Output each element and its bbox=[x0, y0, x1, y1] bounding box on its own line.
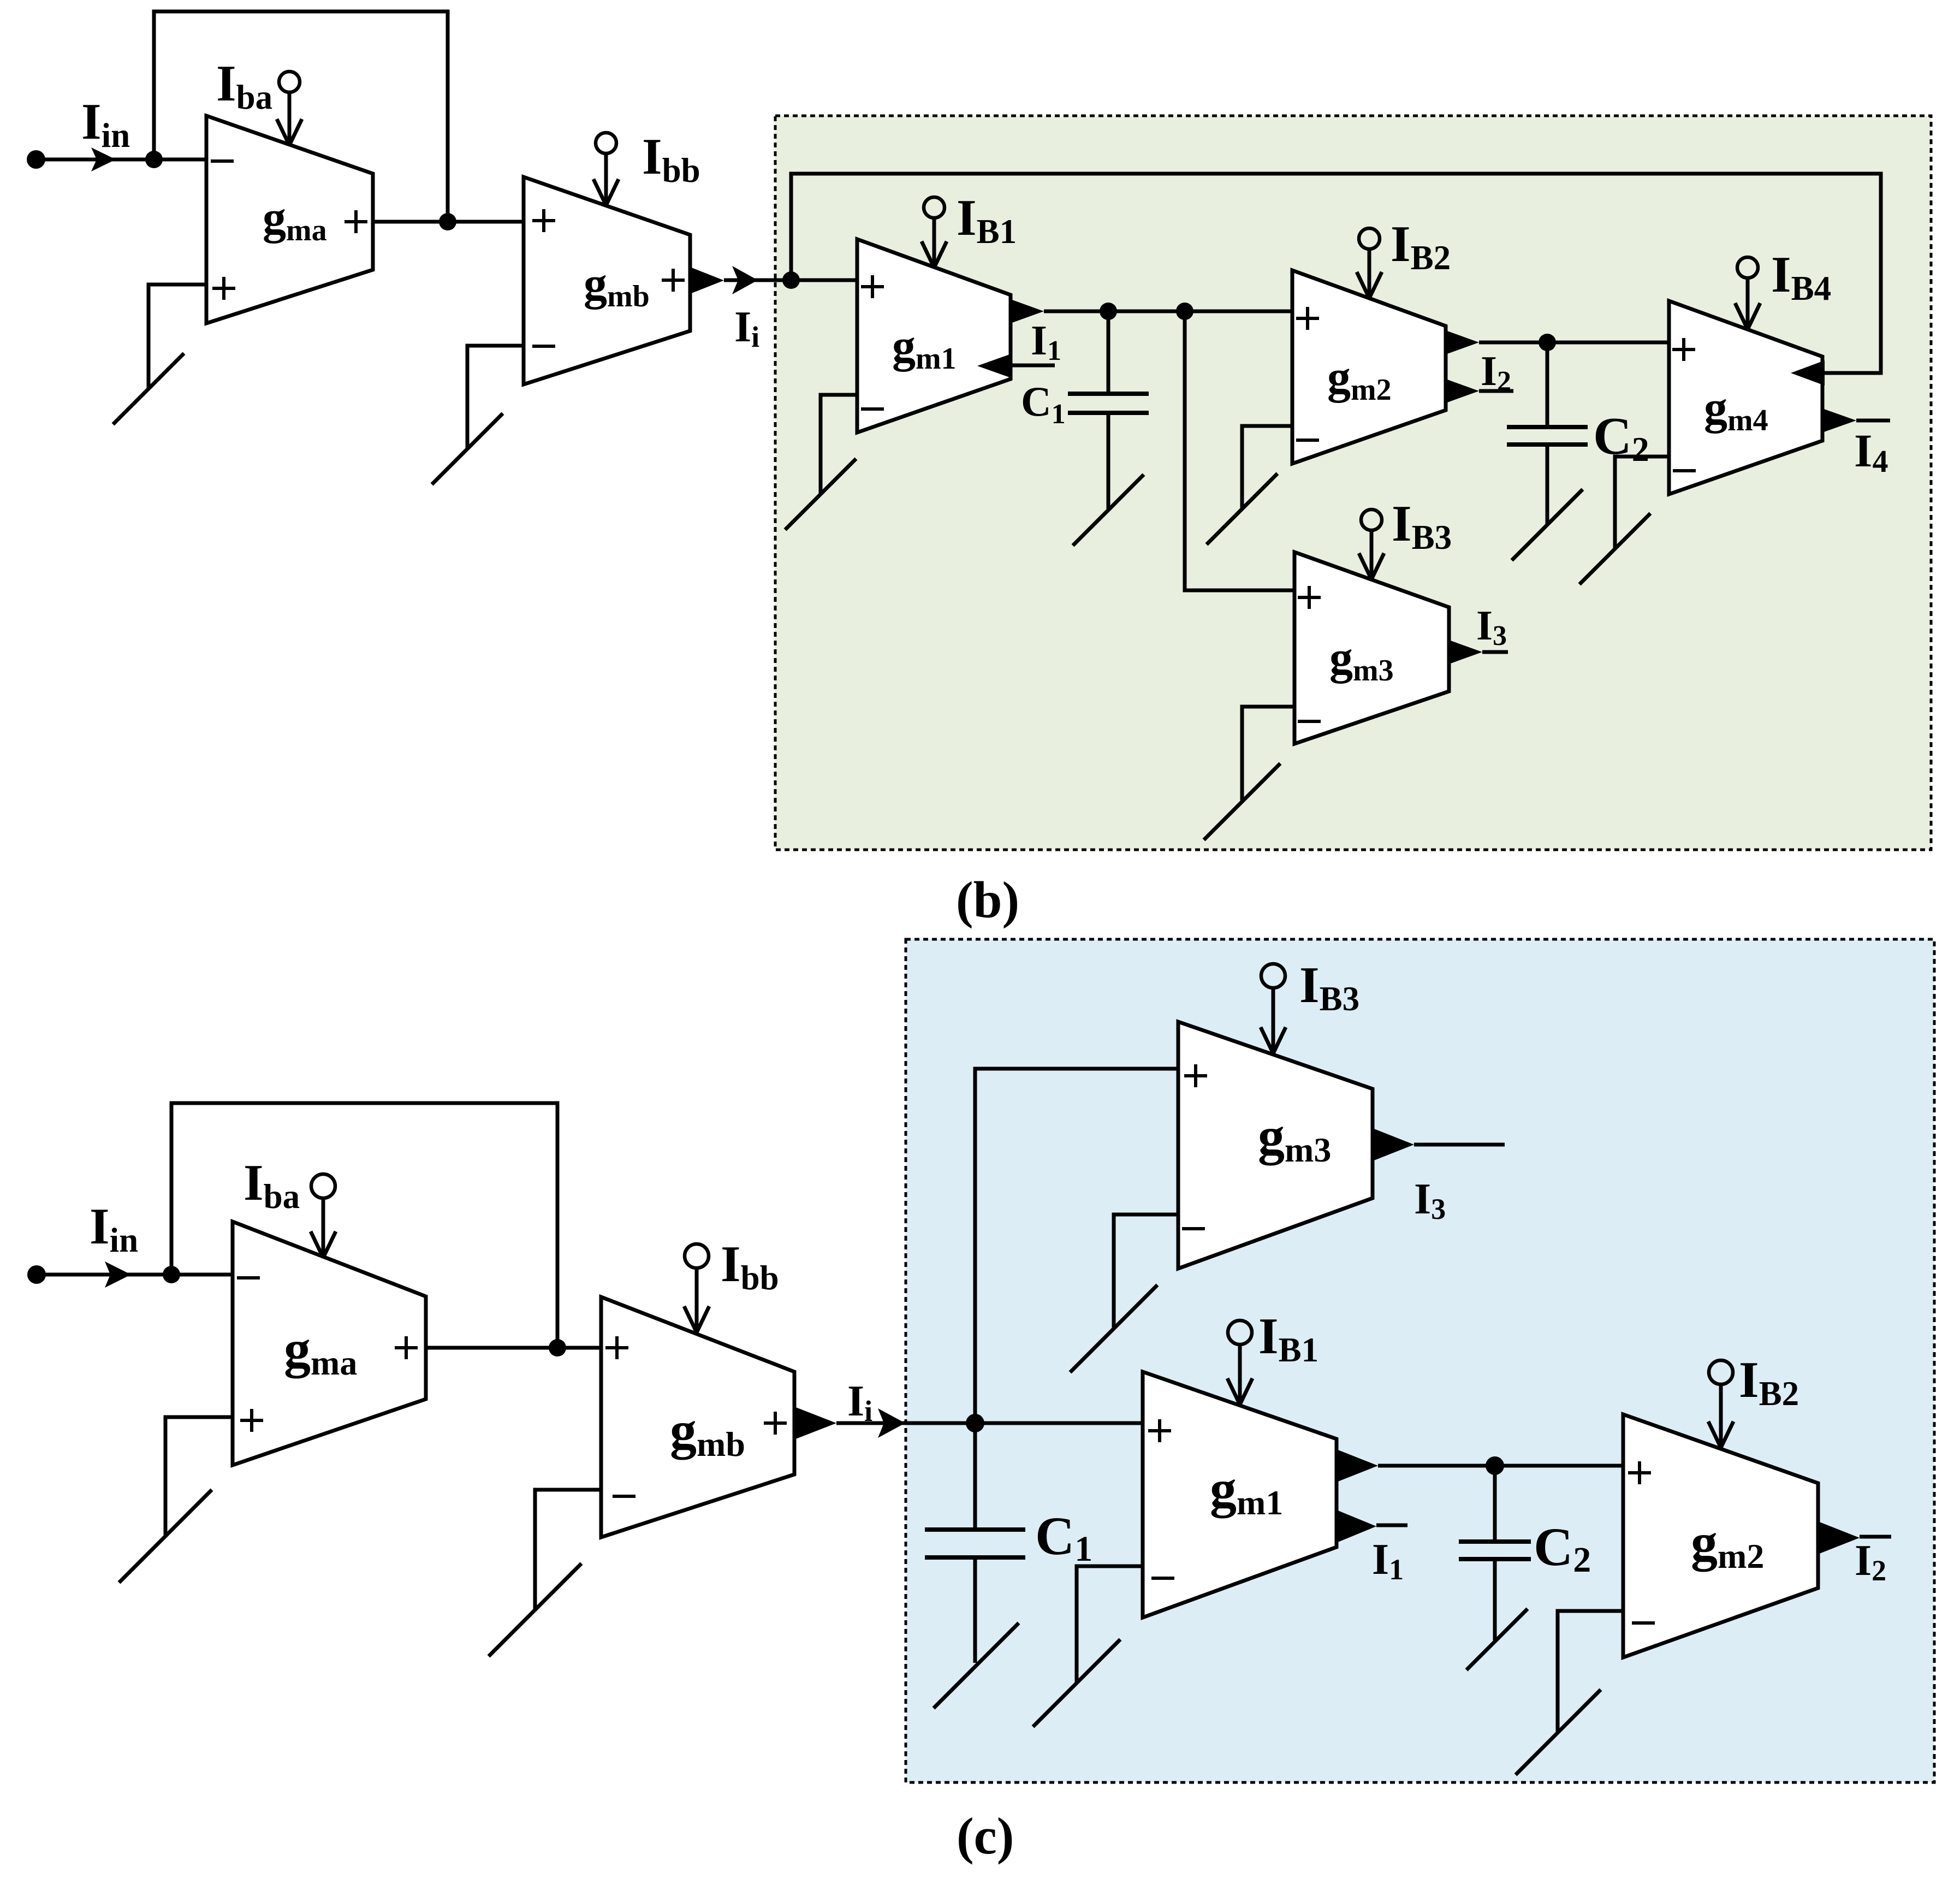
arrowhead Iin (b) bbox=[91, 147, 116, 171]
bias source IB2 (b) bbox=[1357, 228, 1382, 298]
wire C2 bottom to ground (c) bbox=[1493, 1559, 1497, 1640]
label I2 (b) bbox=[1481, 347, 1511, 397]
wire junction to gm1 (c) bbox=[975, 1421, 1143, 1425]
label IB1 (c) bbox=[1258, 1308, 1318, 1369]
wire gma output to gmb (b) bbox=[373, 220, 524, 224]
op-amp gm3 (b) bbox=[1294, 552, 1449, 744]
wire C1 top (c) bbox=[973, 1423, 977, 1530]
wire junction to gm3 (b) bbox=[1185, 311, 1294, 590]
bias source IB1 (c) bbox=[1227, 1320, 1252, 1405]
wire C1 top (b) bbox=[1107, 311, 1110, 394]
svg-text:(c): (c) bbox=[957, 1807, 1014, 1865]
output arrow 1 of gm1 (b) bbox=[1011, 299, 1044, 323]
wire C1 bottom to ground (b) bbox=[1107, 413, 1110, 510]
ground below gm2 (c) bbox=[1516, 1690, 1601, 1775]
label IB3 (c) bbox=[1299, 957, 1359, 1018]
output arrow 2 of gm2, I2 (b) bbox=[1446, 379, 1513, 403]
bias source Iba (b) bbox=[277, 72, 302, 145]
label IB4 (b) bbox=[1771, 246, 1831, 307]
bias source Ibb (b) bbox=[593, 133, 619, 205]
bias source IB3 (c) bbox=[1261, 964, 1286, 1053]
wire gma output to gmb (c) bbox=[426, 1346, 601, 1350]
node gm3 branch junction (b) bbox=[1176, 303, 1193, 320]
capacitor C2 (c) bbox=[1459, 1542, 1531, 1559]
label IB2 (b) bbox=[1391, 216, 1451, 277]
svg-text:Ii: Ii bbox=[734, 303, 759, 353]
node input junction (c) bbox=[163, 1266, 180, 1283]
label I4 (b) bbox=[1854, 424, 1888, 479]
dashed box of filter core (b), green shaded bbox=[775, 116, 1931, 850]
wire gm1 lower input to ground (b) bbox=[821, 395, 857, 494]
op-amp gm2 (b) bbox=[1292, 270, 1446, 464]
label C1 (c) bbox=[1035, 1506, 1092, 1569]
wire C2 bottom to ground (b) bbox=[1546, 445, 1549, 525]
label C2 (c) bbox=[1534, 1516, 1591, 1580]
svg-text:Ii: Ii bbox=[847, 1377, 872, 1427]
label I3 (b) bbox=[1476, 602, 1507, 651]
wire C2 top (b) bbox=[1546, 342, 1549, 427]
wire gma feedback loop (c) bbox=[171, 1103, 557, 1348]
ground below C1 (c) bbox=[934, 1623, 1019, 1708]
ground below gma (b) bbox=[113, 353, 184, 424]
arrowhead Ii (c) bbox=[878, 1408, 905, 1438]
output arrow of gm4, I4 (b) bbox=[1822, 408, 1890, 433]
label IB1 (b) bbox=[957, 189, 1017, 251]
output arrow 2 of gm1, I1 (b) bbox=[977, 354, 1055, 378]
op-amp gm1 (b) bbox=[857, 239, 1011, 433]
wire gm2 lower input to ground (c) bbox=[1558, 1611, 1623, 1732]
wire gm2 lower input to ground (b) bbox=[1242, 426, 1292, 509]
op-amp gma (b) bbox=[206, 116, 373, 323]
wire gmb lower input to ground (b) bbox=[467, 346, 524, 449]
label I2 (c) bbox=[1855, 1537, 1886, 1587]
ground below gm1 (b) bbox=[785, 459, 856, 530]
node C2 junction (c) bbox=[1486, 1456, 1504, 1475]
svg-text:Iin: Iin bbox=[81, 93, 130, 155]
wire junction to gm1 (b) bbox=[791, 279, 857, 282]
label Iin (b) bbox=[81, 93, 130, 155]
op-amp gm4 (b) bbox=[1669, 301, 1822, 494]
bias source IB2 (c) bbox=[1708, 1360, 1733, 1448]
capacitor C2 (b) bbox=[1507, 427, 1588, 445]
op-amp gma (c) bbox=[233, 1222, 426, 1465]
node Ii junction (c) bbox=[966, 1414, 984, 1432]
node input junction (b) bbox=[145, 151, 163, 168]
output arrow of gmb (b) bbox=[690, 267, 724, 294]
wire gm1 to gm2 (b) bbox=[1044, 310, 1292, 313]
ground below gmb (c) bbox=[489, 1563, 581, 1656]
wire gm4 lower input to ground (b) bbox=[1615, 457, 1669, 549]
label Iba (c) bbox=[243, 1154, 300, 1216]
wire gm2 to gm4 (b) bbox=[1479, 341, 1669, 345]
capacitor C1 (c) bbox=[925, 1530, 1025, 1557]
node C1 junction (b) bbox=[1100, 303, 1117, 320]
ground below gm3 (c) bbox=[1070, 1285, 1157, 1372]
wire junction to gm3 (c) bbox=[975, 1069, 1178, 1423]
input terminal node (b) bbox=[27, 150, 45, 169]
bias source IB1 (b) bbox=[922, 197, 947, 268]
output arrow 1 of gm1 (c) bbox=[1337, 1449, 1378, 1482]
ground below C2 (b) bbox=[1512, 489, 1583, 560]
output arrow 2 of gm1, I1 (c) bbox=[1337, 1510, 1407, 1543]
output arrow of gm3, I3 (b) bbox=[1449, 640, 1508, 664]
label C1 (b) bbox=[1021, 378, 1066, 430]
wire Ii (c) bbox=[836, 1421, 975, 1425]
label IB2 (c) bbox=[1739, 1352, 1799, 1413]
ground below C1 (b) bbox=[1073, 475, 1144, 546]
wire gm3 lower input to ground (c) bbox=[1114, 1215, 1178, 1328]
label Ii (b) bbox=[734, 303, 759, 353]
caption (c) bbox=[957, 1807, 1014, 1865]
arrowhead Iin (c) bbox=[105, 1261, 131, 1288]
arrowhead Ii (b) bbox=[732, 266, 758, 294]
op-amp gm2 (c) bbox=[1623, 1414, 1818, 1657]
label Ii (c) bbox=[847, 1377, 872, 1427]
bias source IB4 (b) bbox=[1735, 257, 1760, 329]
bias source Ibb (c) bbox=[684, 1244, 709, 1332]
wire gma lower input to ground (c) bbox=[165, 1417, 233, 1535]
dashed box of filter core (c), blue shaded bbox=[906, 939, 1934, 1782]
output arrow 1 of gm2 (b) bbox=[1446, 330, 1479, 354]
output arrow of gmb (c) bbox=[794, 1407, 836, 1439]
svg-text:Iin: Iin bbox=[90, 1198, 138, 1259]
label Iba (b) bbox=[216, 55, 272, 116]
node gma output junction (b) bbox=[439, 213, 456, 230]
label IB3 (b) bbox=[1392, 495, 1452, 556]
op-amp gm1 (c) bbox=[1143, 1372, 1337, 1618]
wire gma feedback loop (b) bbox=[154, 11, 448, 222]
wire gm4 feedback loop (b) bbox=[791, 174, 1881, 373]
svg-text:(b): (b) bbox=[956, 871, 1019, 929]
wire Ii (b) bbox=[724, 279, 791, 282]
caption (b) bbox=[956, 871, 1019, 929]
svg-text:Ibb: Ibb bbox=[721, 1236, 779, 1297]
ground below gm1 (c) bbox=[1033, 1639, 1120, 1727]
capacitor C1 (b) bbox=[1068, 394, 1149, 413]
wire C1 bottom to ground (c) bbox=[973, 1557, 977, 1663]
ground below gma (c) bbox=[119, 1490, 212, 1583]
wire gm1 to gm2 (c) bbox=[1378, 1464, 1623, 1468]
input terminal node (c) bbox=[27, 1265, 46, 1284]
feedback arrow into gm4 (b) bbox=[1791, 360, 1825, 386]
label I1 (c) bbox=[1372, 1536, 1404, 1586]
svg-text:Iba: Iba bbox=[216, 55, 272, 116]
wire Iin input (c) bbox=[37, 1273, 233, 1277]
ground below gm3 (b) bbox=[1204, 763, 1280, 840]
node C2 junction (b) bbox=[1539, 334, 1556, 351]
ground below gm2 (b) bbox=[1207, 473, 1278, 544]
wire gmb lower input to ground (c) bbox=[535, 1490, 601, 1609]
label Iin (c) bbox=[90, 1198, 138, 1259]
ground below gmb (b) bbox=[432, 413, 503, 484]
output arrow of gm3, I3 (c) bbox=[1373, 1128, 1505, 1161]
output arrow of gm2, I2 (c) bbox=[1818, 1521, 1891, 1554]
op-amp gmb (b) bbox=[524, 177, 690, 384]
ground below C2 (c) bbox=[1466, 1609, 1528, 1670]
node gm1 input junction (b) bbox=[782, 271, 800, 289]
bias source Iba (c) bbox=[311, 1174, 336, 1258]
wire Iin input (b) bbox=[36, 158, 206, 162]
op-amp gmb (c) bbox=[601, 1297, 794, 1537]
wire C2 top (c) bbox=[1493, 1466, 1497, 1542]
svg-text:Iba: Iba bbox=[243, 1154, 300, 1216]
ground below gm4 (b) bbox=[1579, 513, 1650, 584]
label Ibb (b) bbox=[642, 128, 700, 189]
wire gma lower input to ground (b) bbox=[149, 285, 206, 389]
wire gm1 lower input to ground (c) bbox=[1077, 1566, 1143, 1682]
label C2 (b) bbox=[1593, 407, 1649, 469]
label I1 (b) bbox=[1031, 317, 1061, 366]
label Ibb (c) bbox=[721, 1236, 779, 1297]
node gma output junction (c) bbox=[549, 1339, 566, 1356]
svg-text:Ibb: Ibb bbox=[642, 128, 700, 189]
label I3 (c) bbox=[1414, 1175, 1446, 1225]
bias source IB3 (b) bbox=[1359, 510, 1384, 579]
wire gm3 lower input to ground (b) bbox=[1242, 707, 1294, 801]
op-amp gm3 (c) bbox=[1178, 1022, 1373, 1269]
